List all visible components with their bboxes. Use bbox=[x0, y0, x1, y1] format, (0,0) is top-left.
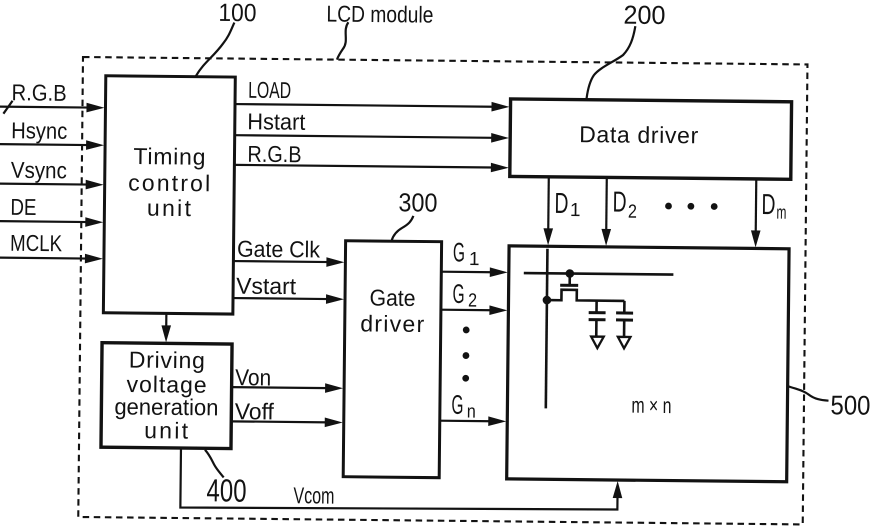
arrowhead: Gn into panel bbox=[488, 416, 506, 426]
capacitor C1 bottom plate bbox=[589, 318, 606, 321]
arrowhead: Vstart into gate driver bbox=[326, 294, 344, 304]
leader squiggle for 100 bbox=[196, 22, 235, 76]
svg-text:unit: unit bbox=[147, 195, 192, 221]
wire: LOAD line (timing -> data driver) bbox=[235, 104, 493, 107]
arrowhead: R.G.B into data driver bbox=[491, 163, 509, 173]
arrowhead: Voff into gate driver bbox=[325, 418, 343, 428]
wire: G2 line (gate driver -> panel) bbox=[441, 309, 493, 312]
svg-text:LOAD: LOAD bbox=[248, 77, 291, 103]
wire: Vsync input line bbox=[0, 183, 89, 186]
svg-text:R.G.B: R.G.B bbox=[247, 141, 301, 168]
svg-text:G: G bbox=[451, 390, 463, 420]
wire: Voff line (dv unit -> gate driver) bbox=[231, 420, 328, 423]
wire: Dm line (data driver -> panel) bbox=[755, 179, 758, 233]
svg-text:1: 1 bbox=[570, 200, 581, 221]
svg-text:Gate Clk: Gate Clk bbox=[237, 236, 321, 263]
wire: Vstart line (timing -> gate driver) bbox=[233, 297, 329, 300]
wire: DE input line bbox=[0, 220, 88, 223]
svg-text:control: control bbox=[128, 169, 210, 196]
TFT pixel: data line (vertical) bbox=[546, 249, 548, 409]
svg-text:2: 2 bbox=[468, 290, 477, 311]
svg-text:D: D bbox=[761, 189, 775, 221]
wire: Von line (dv unit -> gate driver) bbox=[232, 386, 329, 389]
TFT pixel: transistor channel / source-drain path bbox=[547, 290, 625, 301]
svg-text:Von: Von bbox=[235, 364, 271, 390]
svg-text:Voff: Voff bbox=[235, 398, 275, 424]
svg-text:Vstart: Vstart bbox=[236, 273, 297, 300]
svg-text:Vcom: Vcom bbox=[293, 482, 334, 508]
capacitor C1 top stub bbox=[595, 301, 598, 312]
capacitor C1 bottom stub bbox=[595, 321, 598, 336]
TFT pixel: gate line (horizontal) bbox=[524, 273, 674, 275]
arrowhead: G2 into panel bbox=[489, 305, 507, 315]
ground symbol for C2 (open triangle) bbox=[618, 337, 631, 349]
svg-text:Timing: Timing bbox=[133, 143, 205, 170]
svg-text:R.G.B: R.G.B bbox=[11, 79, 66, 106]
svg-text:Gate: Gate bbox=[369, 284, 415, 310]
TFT pixel: transistor gate bar bbox=[560, 284, 578, 287]
leader squiggle for 400 bbox=[205, 450, 224, 478]
capacitor C2 top plate bbox=[616, 311, 633, 314]
dashed LCD module border (net 500 boundary) bbox=[78, 57, 807, 524]
wire: MCLK input line bbox=[0, 257, 88, 260]
bus slash on R.G.B input bbox=[3, 101, 12, 114]
wire: R.G.B line (timing -> data driver) bbox=[234, 165, 492, 168]
capacitor C2 bottom plate bbox=[616, 318, 633, 321]
ground symbol for C1 (open triangle) bbox=[591, 337, 604, 349]
block: Driving voltage generation unit (400) bbox=[101, 343, 232, 449]
wire: Hsync input line bbox=[0, 143, 89, 146]
svg-text:200: 200 bbox=[623, 0, 665, 30]
arrowhead: DE into timing unit bbox=[85, 217, 103, 227]
arrowhead: Dm into panel (down) bbox=[751, 230, 761, 247]
svg-text:D: D bbox=[612, 186, 626, 218]
svg-text:D: D bbox=[554, 188, 568, 220]
arrowhead: G1 into panel bbox=[490, 267, 508, 277]
block: LCD panel m x n (500) bbox=[507, 246, 789, 482]
wire: G1 line (gate driver -> panel) bbox=[441, 271, 493, 274]
node: junction dot on gate line (TFT gate) bbox=[565, 269, 574, 278]
wire: Vcom route (dv unit bottom, down, right, up into panel) bbox=[180, 448, 618, 512]
wire: D1 line (data driver -> panel) bbox=[547, 177, 550, 231]
svg-text:Hstart: Hstart bbox=[247, 108, 306, 135]
node: junction dot on data line (TFT source) bbox=[543, 296, 552, 305]
svg-text:100: 100 bbox=[218, 0, 256, 27]
ellipsis dots between D2 and Dm bbox=[665, 203, 672, 210]
wire: Hstart line (timing -> data driver) bbox=[235, 135, 493, 138]
wire: Gn line (gate driver -> panel) bbox=[440, 420, 492, 423]
arrowhead: R.G.B into timing unit bbox=[86, 103, 104, 113]
svg-text:DE: DE bbox=[10, 194, 36, 220]
wire: D2 line (data driver -> panel) bbox=[605, 177, 608, 231]
svg-text:generation: generation bbox=[114, 393, 218, 420]
wire: timing unit to driving voltage unit (vertical) bbox=[165, 313, 167, 327]
arrowhead: Gate Clk into gate driver bbox=[326, 257, 344, 267]
arrowhead: LOAD into data driver bbox=[491, 102, 509, 112]
arrowhead: Von into gate driver bbox=[325, 383, 343, 393]
svg-text:Data driver: Data driver bbox=[579, 121, 699, 148]
TFT pixel: transistor gate stub bbox=[568, 274, 571, 284]
svg-text:300: 300 bbox=[398, 187, 437, 217]
leader squiggle for 500 bbox=[788, 386, 829, 401]
svg-text:400: 400 bbox=[206, 472, 246, 508]
svg-text:MCLK: MCLK bbox=[10, 230, 63, 257]
leader squiggle for 200 bbox=[587, 26, 636, 99]
block: Gate driver (300) bbox=[343, 241, 441, 478]
arrowhead: Hstart into data driver bbox=[491, 133, 509, 143]
arrowhead: Vcom into panel bottom (up) bbox=[613, 481, 623, 498]
arrowhead: MCLK into timing unit bbox=[85, 254, 103, 264]
svg-text:2: 2 bbox=[628, 202, 637, 223]
svg-text:n: n bbox=[467, 401, 476, 422]
svg-text:Vsync: Vsync bbox=[11, 157, 67, 184]
svg-text:G: G bbox=[452, 279, 464, 309]
svg-text:m × n: m × n bbox=[631, 393, 671, 418]
block: Timing control unit (100) bbox=[103, 76, 235, 314]
svg-text:500: 500 bbox=[830, 390, 870, 420]
wire: R.G.B input line bbox=[0, 106, 89, 109]
svg-text:m: m bbox=[776, 203, 786, 224]
leader squiggle for 300 bbox=[392, 216, 414, 241]
svg-text:unit: unit bbox=[144, 417, 189, 443]
wire: Gate Clk line (timing -> gate driver) bbox=[233, 260, 329, 263]
arrowhead: D2 into panel (down) bbox=[601, 229, 611, 246]
ellipsis dots between G2 and Gn bbox=[463, 327, 470, 334]
svg-text:LCD module: LCD module bbox=[326, 1, 433, 28]
svg-text:Driving: Driving bbox=[129, 346, 205, 373]
arrowhead: D1 into panel (down) bbox=[543, 228, 553, 245]
svg-text:G: G bbox=[453, 237, 465, 267]
capacitor C1 top plate bbox=[589, 311, 606, 314]
leader squiggle for LCD module bbox=[337, 22, 348, 60]
svg-text:1: 1 bbox=[469, 249, 480, 270]
arrowhead: Vsync into timing unit bbox=[86, 180, 104, 190]
arrowhead: Hsync into timing unit bbox=[86, 140, 104, 150]
svg-text:Hsync: Hsync bbox=[11, 117, 67, 144]
svg-text:driver: driver bbox=[360, 310, 425, 337]
capacitor C2 bottom stub bbox=[623, 321, 626, 336]
block: Data driver (200) bbox=[510, 99, 792, 179]
capacitor C2 top stub bbox=[623, 301, 626, 312]
arrowhead: timing to dv unit (down) bbox=[161, 325, 171, 342]
